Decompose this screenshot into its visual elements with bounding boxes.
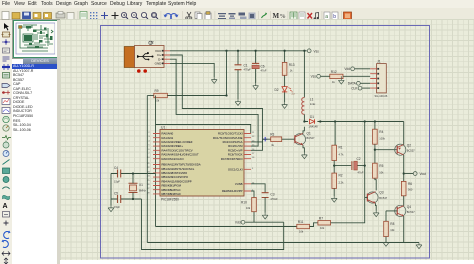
ground (B2 end) — [416, 243, 422, 249]
junction dot crystal top — [132, 172, 134, 174]
node red dot B — [143, 69, 147, 73]
capacitor C3 — [262, 193, 279, 202]
ground (C6) — [253, 83, 259, 89]
wire Q3 base — [365, 197, 368, 199]
ground (USB gnd) — [211, 77, 217, 83]
svg-text:C6: C6 — [261, 65, 265, 69]
svg-text:5: 5 — [148, 145, 150, 147]
svg-text:BC557: BC557 — [407, 149, 415, 153]
wire Vout — [404, 173, 413, 175]
wire Q2 emitter top — [403, 122, 405, 145]
wire Q2 base — [375, 149, 397, 151]
resistor R6 — [401, 181, 412, 195]
svg-text:Vss: Vss — [311, 75, 317, 79]
svg-text:C2: C2 — [357, 157, 361, 161]
svg-text:26: 26 — [147, 184, 150, 186]
wire VDD to pin1 — [355, 68, 371, 70]
resistor R4 — [373, 129, 386, 144]
resistor R8 — [384, 221, 395, 236]
ground (C3) — [262, 213, 268, 219]
svg-text:J1: J1 — [377, 59, 381, 63]
svg-text:BC547: BC547 — [407, 210, 415, 214]
wire R7 to Q3 base column — [331, 198, 365, 223]
svg-text:R8: R8 — [390, 222, 394, 226]
wire R13-D2 chain — [284, 51, 286, 103]
resistor R2 — [332, 173, 344, 188]
wire Q2 collector down — [403, 155, 405, 182]
svg-text:R4: R4 — [379, 130, 383, 134]
wire R1-R2 link — [333, 161, 335, 174]
svg-text:1N4148: 1N4148 — [309, 124, 319, 128]
svg-text:BC547: BC547 — [307, 136, 315, 140]
left tool strip — [0, 20, 12, 264]
resistor R9 — [154, 89, 168, 103]
svg-text:17: 17 — [252, 153, 255, 155]
svg-text:R11: R11 — [298, 220, 304, 224]
svg-text:1k: 1k — [271, 143, 274, 147]
svg-text:1k: 1k — [332, 80, 335, 84]
wire collector rail A — [304, 121, 403, 123]
resistor R7 — [318, 216, 331, 230]
svg-text:Q1: Q1 — [307, 132, 311, 136]
junction dot crystal bottom — [132, 198, 134, 200]
connector J1 — [370, 59, 388, 98]
svg-text:22: 22 — [147, 167, 150, 169]
capacitor C4 — [114, 166, 121, 184]
wire Q4 emitter — [403, 216, 405, 242]
resistor R13 — [282, 62, 294, 75]
wire Vss2 to R12 — [321, 75, 330, 77]
crystal X1 — [129, 183, 147, 193]
terminal DATA — [348, 81, 361, 85]
svg-text:Q4: Q4 — [407, 205, 411, 209]
wire VUSB to C3 — [251, 184, 265, 193]
svg-text:21: 21 — [147, 163, 150, 165]
wire C5 row — [111, 198, 142, 200]
diode D1 — [308, 115, 318, 129]
junction dot C2 tap — [333, 164, 335, 166]
wire Q1 emitter — [303, 145, 304, 152]
svg-text:R7: R7 — [319, 216, 323, 220]
junction dot Q2 base tap — [374, 149, 376, 151]
ground (Q3) — [373, 211, 379, 217]
wire Q3 emitter — [375, 203, 378, 210]
svg-text:R2: R2 — [339, 174, 343, 178]
ground (D2) — [282, 102, 288, 108]
wire DATA to pin4 — [361, 82, 371, 84]
svg-text:15pF: 15pF — [114, 205, 120, 209]
svg-text:10k: 10k — [379, 171, 384, 175]
svg-text:U1: U1 — [161, 125, 165, 129]
node origin marker — [263, 137, 267, 141]
svg-text:47uF: 47uF — [358, 171, 364, 175]
capacitor C6 (elec) — [252, 63, 267, 72]
resistor R12 — [330, 70, 343, 84]
svg-text:10k: 10k — [320, 226, 325, 230]
wire D+ route — [170, 55, 263, 150]
wire VCC top rail — [170, 50, 307, 52]
wire L1 bottom — [303, 114, 305, 121]
wire left bus 1 — [146, 96, 148, 243]
ground (C4/C5) — [108, 206, 114, 212]
svg-text:R1: R1 — [339, 146, 343, 150]
svg-text:Vss: Vss — [314, 49, 320, 53]
svg-text:GND: GND — [155, 62, 163, 66]
svg-text:10k: 10k — [246, 206, 251, 210]
svg-text:9: 9 — [252, 168, 254, 170]
svg-text:OSC1/CLKI: OSC1/CLKI — [228, 167, 243, 171]
terminal VDD (J1) — [344, 67, 354, 71]
wire R4 top — [374, 122, 376, 130]
wire R1 drop — [333, 122, 336, 146]
wire bottom rail B1 — [156, 226, 297, 228]
svg-text:24: 24 — [147, 176, 150, 178]
wire R6 to Q4 collector — [403, 196, 405, 206]
svg-text:D1: D1 — [310, 115, 314, 119]
svg-text:1k: 1k — [290, 69, 293, 73]
wire R12 to connector — [343, 75, 370, 77]
svg-text:CLK: CLK — [351, 87, 358, 91]
ground (R2) — [331, 196, 337, 202]
junction dot R9-right — [225, 94, 227, 96]
wire R9 right lead — [167, 51, 226, 96]
LED D2 — [275, 87, 295, 96]
svg-text:R10: R10 — [241, 201, 247, 205]
wire bottom rail B2 — [147, 242, 419, 244]
wire bottom rail B3 — [142, 199, 284, 250]
capacitor C2 (elec) — [352, 157, 364, 175]
node red dot A — [137, 69, 141, 73]
svg-text:R13: R13 — [289, 63, 295, 67]
svg-text:2: 2 — [148, 132, 150, 134]
wire C1 drop — [237, 51, 239, 99]
transistor Q2 PNP — [395, 144, 416, 156]
terminal CLK — [351, 86, 362, 90]
terminal Vout — [413, 172, 426, 176]
svg-text:BC547: BC547 — [379, 196, 387, 200]
sidebar — [12, 20, 60, 264]
wire R4-R5 link — [374, 144, 376, 163]
svg-text:100k: 100k — [379, 137, 385, 141]
wire Q4 base row — [386, 211, 397, 221]
wire C3 bottom — [264, 198, 266, 213]
wire R11-R7 link — [310, 223, 318, 227]
resistor R11 — [297, 220, 310, 234]
svg-text:R3: R3 — [270, 133, 274, 137]
capacitor C5 — [114, 192, 121, 210]
wire CLK to pin5 — [362, 87, 370, 89]
junction dots rail A — [303, 120, 376, 122]
svg-text:RE3/MCLR/VPP: RE3/MCLR/VPP — [222, 189, 243, 193]
wire RC2 to R3 — [251, 139, 271, 142]
inductor L1 — [302, 98, 316, 115]
svg-text:RA6/OSC2/CLKO: RA6/OSC2/CLKO — [162, 157, 185, 161]
svg-text:R9: R9 — [155, 89, 159, 93]
svg-text:27: 27 — [147, 188, 150, 190]
svg-text:8MHz: 8MHz — [139, 189, 146, 193]
svg-text:Vdd: Vdd — [235, 221, 241, 225]
svg-text:10k: 10k — [390, 228, 395, 232]
wire D- route — [170, 59, 258, 146]
wire R2 bottom — [333, 188, 335, 196]
svg-text:4.7k: 4.7k — [339, 153, 345, 157]
svg-text:DATA: DATA — [348, 82, 357, 86]
transistor Q4 — [395, 205, 416, 217]
wire crystal vertical — [132, 174, 134, 200]
transistor Q3 — [367, 191, 388, 204]
svg-text:C5: C5 — [114, 192, 118, 196]
junction dots top rail — [225, 50, 305, 52]
svg-text:2u: 2u — [292, 92, 295, 96]
svg-text:PIC18F2550: PIC18F2550 — [161, 198, 179, 202]
svg-text:SIL-100-06: SIL-100-06 — [375, 94, 388, 98]
svg-text:R5: R5 — [379, 164, 383, 168]
ground (Q1) — [302, 153, 308, 159]
svg-text:D2: D2 — [275, 88, 279, 92]
svg-text:C4: C4 — [114, 166, 118, 170]
svg-text:R12: R12 — [331, 70, 337, 74]
wire C2 row — [334, 165, 364, 167]
wire GND to ground — [170, 63, 214, 77]
svg-text:1mH: 1mH — [310, 102, 316, 106]
resistor R10 — [241, 198, 256, 212]
junction dot Vout tap — [403, 172, 405, 174]
IC U1 PIC18F2550 — [147, 125, 255, 201]
resistor R3 — [270, 133, 282, 148]
resistor R1 — [332, 145, 344, 160]
svg-text:Vout: Vout — [420, 172, 426, 176]
terminal Vss2 — [311, 74, 321, 78]
svg-text:VUSB: VUSB — [235, 182, 243, 186]
svg-text:J2: J2 — [150, 41, 154, 45]
svg-text:L1: L1 — [310, 98, 314, 102]
ground (R12 row) — [338, 76, 344, 84]
connector J2 USB — [124, 41, 170, 68]
capacitor C1 — [235, 64, 252, 72]
svg-text:Q2: Q2 — [407, 144, 411, 148]
transistor Q1 — [294, 132, 315, 146]
svg-text:470pF: 470pF — [244, 68, 252, 72]
svg-text:28: 28 — [147, 192, 150, 194]
sheet border frame — [101, 26, 430, 259]
svg-text:10k: 10k — [299, 230, 304, 234]
wire RE3 to R10 — [251, 191, 254, 198]
svg-text:Vdd: Vdd — [344, 67, 350, 71]
svg-text:RB7/KBI3/PGD: RB7/KBI3/PGD — [162, 192, 181, 196]
wire left bus 2 — [155, 96, 157, 227]
svg-text:RC7/RX/DT/SDO: RC7/RX/DT/SDO — [221, 157, 243, 161]
svg-text:3: 3 — [148, 136, 150, 138]
wire C4-C5 left — [110, 174, 112, 206]
wire L1 top — [303, 51, 305, 98]
wire Q1 collector — [303, 127, 304, 134]
svg-text:10: 10 — [147, 157, 150, 159]
wire over-chip H8 — [156, 125, 251, 134]
svg-text:11: 11 — [252, 132, 255, 134]
svg-text:R6: R6 — [408, 182, 412, 186]
svg-text:470nF: 470nF — [270, 197, 278, 201]
svg-text:C3: C3 — [270, 193, 274, 197]
svg-text:47uF: 47uF — [261, 69, 267, 73]
wire R8 bottom — [385, 237, 387, 243]
canvas with grid — [60, 19, 474, 260]
svg-text:X1: X1 — [139, 183, 143, 187]
terminal Vdd — [235, 220, 245, 224]
wire R3 to Q1 base — [282, 138, 295, 140]
junction dot C2 right — [364, 164, 366, 166]
resistor R5 — [373, 163, 385, 178]
svg-text:560: 560 — [408, 188, 413, 192]
svg-text:Q3: Q3 — [379, 191, 383, 195]
svg-text:6: 6 — [148, 149, 150, 151]
wire C6 drop — [255, 51, 257, 83]
svg-text:7: 7 — [148, 153, 150, 155]
svg-text:C1: C1 — [244, 64, 248, 68]
svg-text:12: 12 — [252, 136, 255, 138]
svg-text:4: 4 — [148, 140, 150, 142]
svg-text:15pF: 15pF — [114, 180, 120, 184]
toolbar — [0, 8, 474, 20]
svg-text:25: 25 — [147, 180, 150, 182]
svg-text:18: 18 — [252, 157, 255, 159]
wire R5 bottom to Q3 collector — [375, 178, 376, 190]
menu bar — [0, 0, 474, 8]
wire R9 left lead — [147, 95, 154, 97]
wire C4 row — [111, 173, 156, 175]
ground (C1) — [235, 99, 241, 105]
ground (R8) — [383, 243, 389, 247]
svg-text:2.2k: 2.2k — [339, 181, 345, 185]
terminal Vss (power) — [307, 49, 319, 53]
wire R10 bottom / Vdd row — [245, 212, 284, 223]
wire C2/Q3 vertical — [364, 122, 366, 198]
